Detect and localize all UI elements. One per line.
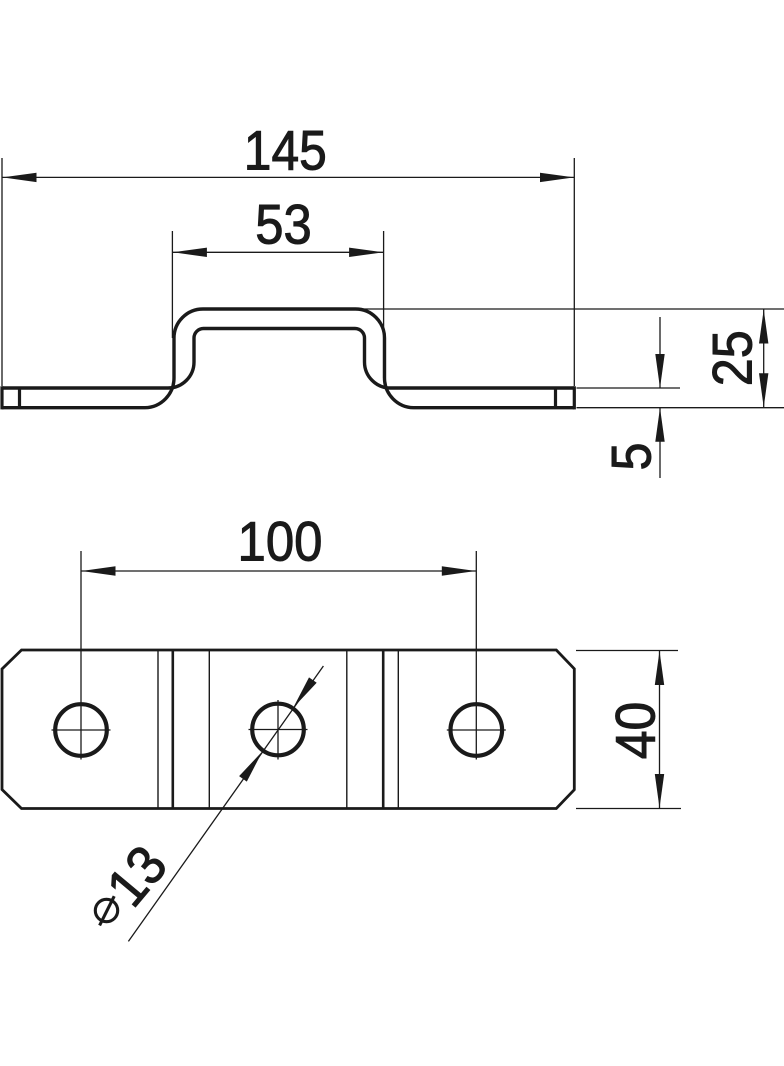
diameter 13 leader: lower arrow (points to hole edge) (239, 748, 266, 781)
dimension 100: extension line left (continues as hole centerline) (80, 551, 82, 760)
dimension 53: extension line right (383, 231, 385, 378)
dimension 25: top arrow (759, 310, 768, 344)
svg-text:53: 53 (255, 193, 312, 255)
dimension 100: dimension line (81, 570, 476, 572)
dimension 53: right arrow (349, 248, 383, 257)
dimension 145: dimension line (3, 176, 575, 178)
bend line (thick, left) (172, 651, 175, 808)
dimension 145: extension line right (573, 158, 575, 386)
dimension 25: extension line bottom (577, 407, 784, 409)
bend tangent line (thin, right) (397, 651, 399, 808)
left end cap (0, 386, 3, 409)
dimension 25: bottom arrow (759, 373, 768, 407)
svg-text:40: 40 (605, 702, 667, 760)
hole right center cross (447, 729, 506, 731)
svg-text:25: 25 (701, 330, 763, 386)
dimension 40: dimension line (659, 651, 661, 809)
hole left center cross (52, 729, 111, 731)
profile outer surface path (flange bottom / wall outer / hat top) (2, 309, 574, 408)
dimension 53: extension line left (171, 231, 173, 338)
dimension 5: lower leg with up arrow (659, 408, 661, 478)
dimension 40: extension line top (576, 650, 678, 652)
left chamfer tick (18, 388, 21, 408)
bend tangent line (thin, left inner) (208, 651, 210, 808)
bend line (thick, right) (382, 651, 385, 808)
hole middle center cross (249, 729, 308, 731)
dimension 5: upper leg with down arrow (659, 317, 661, 388)
dimension 145: extension line left (1, 158, 3, 386)
bend tangent line (thin, left) (157, 651, 159, 808)
bend tangent line (thin, right inner) (346, 651, 348, 808)
dimension 25: dimension line (763, 310, 765, 408)
dimension 53: left arrow (173, 248, 207, 257)
hole left (55, 704, 107, 756)
dimension 53: dimension line (172, 251, 383, 253)
svg-text:13: 13 (95, 834, 179, 918)
dimension 145: right arrow (540, 173, 574, 182)
svg-text:5: 5 (600, 443, 662, 471)
hole right (451, 704, 503, 756)
dimension 100: left arrow (82, 566, 116, 575)
dimension 40: extension line bottom (576, 808, 681, 810)
dimension 40: top arrow (655, 651, 664, 685)
dimension 100: extension line right (continues as hole centerline) (475, 551, 477, 760)
diameter 13 leader: upper arrow (points to hole edge) (289, 677, 316, 710)
diameter 13 leader line (128, 666, 323, 941)
dimension 40: bottom arrow (655, 774, 664, 808)
diameter 13 label: diameter symbol (circle + slash) (95, 899, 117, 921)
dimension 100: right arrow (442, 566, 476, 575)
svg-text:100: 100 (238, 511, 323, 573)
plan outline with chamfered corners (2, 650, 574, 809)
svg-text:145: 145 (244, 120, 327, 182)
right end cap (573, 386, 576, 409)
dimension 5: extension line (flange top, to the right) (577, 387, 681, 389)
dimension 25: extension line top (from hat top to right margin) (357, 308, 784, 310)
right chamfer tick (554, 388, 557, 408)
profile inner surface path (flange top / wall inner / hat underside) (2, 329, 574, 389)
dimension 145: left arrow (3, 173, 37, 182)
hole middle (252, 704, 304, 756)
